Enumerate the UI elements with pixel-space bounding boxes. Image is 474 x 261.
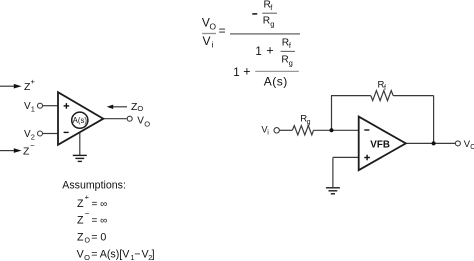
svg-text:1: 1 — [233, 67, 239, 79]
svg-text:A(s): A(s) — [73, 116, 88, 125]
svg-text:V: V — [137, 116, 144, 127]
svg-text:A(s): A(s) — [264, 74, 288, 88]
svg-text:−: − — [30, 141, 35, 150]
svg-text:= 0: = 0 — [91, 231, 106, 243]
svg-text:2: 2 — [31, 133, 35, 142]
svg-text:O: O — [210, 22, 217, 32]
svg-text:1: 1 — [31, 105, 35, 114]
svg-text:O: O — [144, 119, 150, 128]
svg-text:Z: Z — [77, 198, 84, 210]
svg-text:+: + — [31, 77, 36, 86]
svg-text:V: V — [203, 34, 211, 48]
svg-text:f: f — [384, 85, 386, 92]
svg-text:= ∞: = ∞ — [92, 199, 108, 210]
svg-text:−: − — [134, 248, 140, 260]
svg-text:O: O — [85, 238, 91, 245]
svg-text:Z: Z — [77, 231, 84, 243]
svg-text:+: + — [266, 44, 273, 58]
svg-text:−: − — [85, 209, 90, 218]
svg-text:Z: Z — [23, 145, 30, 157]
svg-text:=: = — [91, 248, 97, 260]
svg-text:O: O — [470, 144, 474, 151]
svg-text:= ∞: = ∞ — [92, 216, 108, 227]
svg-text:+: + — [243, 65, 250, 79]
svg-text:R: R — [263, 15, 270, 26]
svg-text:Assumptions:: Assumptions: — [62, 180, 126, 192]
svg-text:]: ] — [152, 248, 155, 260]
svg-text:Z: Z — [77, 215, 84, 227]
svg-text:+: + — [85, 192, 90, 201]
svg-text:g: g — [289, 59, 293, 68]
svg-text:O: O — [137, 104, 143, 113]
svg-text:VFB: VFB — [370, 140, 390, 151]
svg-text:1: 1 — [255, 46, 261, 58]
svg-text:i: i — [212, 39, 214, 49]
svg-text:=: = — [219, 24, 226, 38]
svg-text:A(s)[V: A(s)[V — [100, 248, 131, 260]
svg-text:g: g — [307, 119, 311, 126]
svg-text:O: O — [84, 253, 90, 261]
svg-text:g: g — [270, 19, 274, 28]
